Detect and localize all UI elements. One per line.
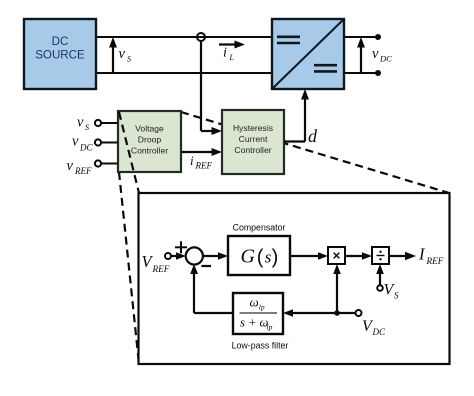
wire junction to multiplier [333,264,341,313]
wire bottom bus [96,72,272,74]
label v_DC [372,46,392,64]
wire multiplier to divider [345,252,372,260]
label v_S [77,115,89,133]
terminal V_S [377,285,383,291]
terminal V_REF [165,253,171,259]
terminal dot top [375,34,381,40]
arrow v_DC [357,37,365,73]
svg-text:S: S [85,123,89,132]
arrow v_s [109,37,117,73]
svg-text:v: v [77,115,84,131]
divider [372,247,389,264]
dashed callout line left-top [119,112,139,193]
wire divider to output [389,252,416,260]
wire V_S to divider [376,264,384,285]
svg-text:Current: Current [239,134,268,144]
svg-text:SOURCE: SOURCE [35,49,85,62]
svg-text:Hysteresis: Hysteresis [233,123,273,133]
svg-text:v: v [372,46,379,62]
svg-text:Droop: Droop [138,135,162,145]
wire top bus [96,36,272,38]
hysteresis current controller [222,110,284,174]
converter U1 (DC/DC) [272,19,344,89]
wire d to converter [284,89,309,142]
svg-text:REF: REF [195,161,213,171]
terminal v_REF [95,160,118,166]
label V_DC [362,318,386,337]
svg-text:Controller: Controller [131,146,168,156]
wire converter output top [344,36,378,38]
svg-text:Low-pass filter: Low-pass filter [232,341,289,351]
svg-text:L: L [229,53,235,62]
terminal dot bottom [375,70,381,76]
wire node to hysteresis controller [201,41,222,135]
compensator G(s) [228,236,290,275]
wire G(s) to multiplier [290,252,328,260]
label V_S [384,282,400,301]
terminal v_DC [95,139,118,145]
svg-text:DC: DC [372,327,386,337]
dashed callout line right [181,112,449,193]
arrow i_L [219,41,245,49]
svg-text:v: v [67,158,74,174]
svg-text:s + ω: s + ω [240,316,269,330]
label i_REF [190,153,212,171]
wire i_REF [181,148,222,156]
svg-text:ω: ω [250,295,259,310]
svg-text:): ) [272,247,279,269]
wire summer to G(s) [202,252,228,260]
junction V_DC branch [334,310,340,316]
svg-text:(: ( [257,247,264,269]
terminal V_DC [356,310,362,316]
svg-text:Controller: Controller [234,145,271,155]
DC source [24,19,96,89]
svg-text:S: S [394,291,399,301]
label V_REF [142,252,170,274]
svg-text:DC: DC [79,143,93,153]
svg-text:Voltage: Voltage [135,124,164,134]
svg-text:DC: DC [379,54,392,64]
wire V_REF to summer [171,252,186,260]
label v_DC [72,134,93,153]
plus sign [175,241,187,253]
svg-text:Compensator: Compensator [233,223,286,233]
minus sign [201,265,211,267]
svg-text:REF: REF [74,166,92,176]
multiplier [328,247,345,264]
svg-text:lp: lp [259,303,265,312]
summing junction [186,247,203,264]
svg-text:d: d [308,126,318,146]
node on top bus [197,33,205,41]
svg-text:v: v [119,46,126,62]
label v_s [119,46,132,63]
low-pass filter block [233,293,283,334]
svg-text:i: i [190,153,194,168]
label I_REF [418,245,444,267]
svg-text:G: G [241,246,256,268]
detail callout rectangle [139,193,450,364]
terminal v_S [95,120,118,126]
svg-text:S: S [127,54,131,63]
dashed callout line left-bottom [119,172,139,364]
wire feedback low-pass to summer [190,264,233,313]
label v_REF [67,158,92,176]
svg-text:v: v [72,134,79,150]
wire converter output bottom [344,72,378,74]
svg-text:REF: REF [152,264,170,274]
svg-text:DC: DC [52,35,69,48]
wire V_DC to low-pass filter [283,309,356,317]
svg-text:i: i [223,46,227,61]
voltage droop controller [118,111,181,172]
svg-text:REF: REF [426,256,444,266]
label i_L [223,46,235,63]
svg-text:lp: lp [267,323,273,332]
